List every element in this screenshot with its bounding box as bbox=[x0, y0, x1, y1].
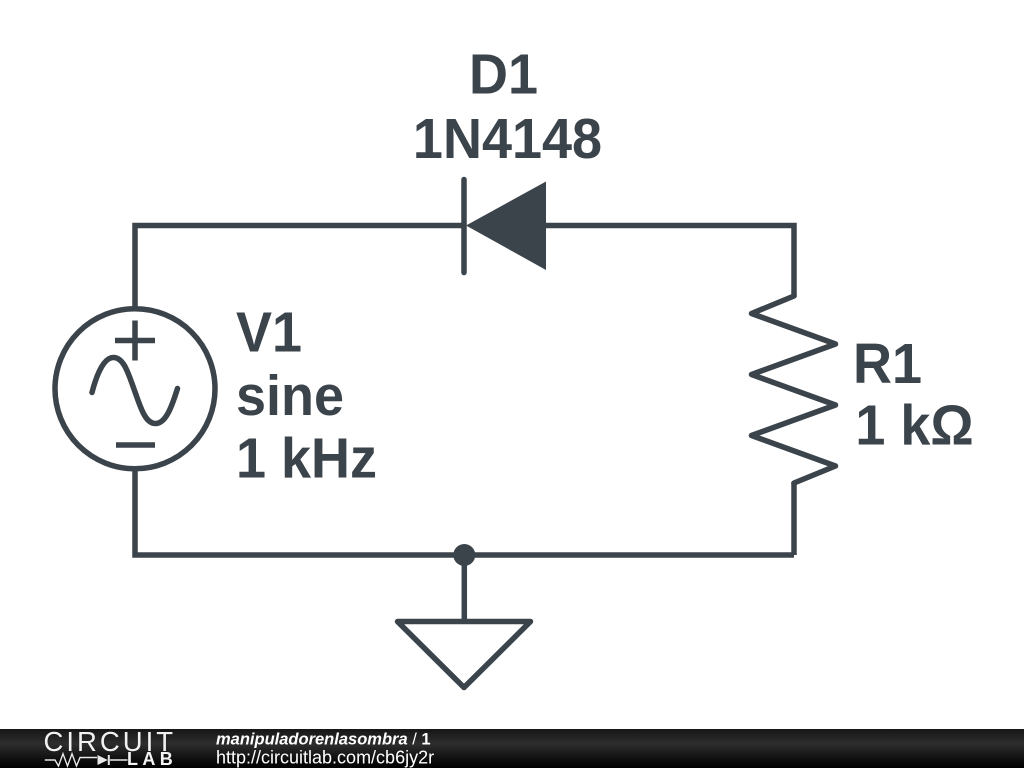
footer bar bbox=[0, 729, 1024, 768]
svg-text:1N4148: 1N4148 bbox=[413, 107, 602, 171]
wire right-bottom: R1 bottom to bottom rail bbox=[791, 482, 797, 555]
svg-text:R1: R1 bbox=[853, 332, 922, 396]
D1 triangle bbox=[466, 182, 546, 271]
wire top-left: V1 top to diode cathode bbox=[135, 226, 464, 307]
CircuitLab logo: resistor-diode squiggle bbox=[45, 754, 128, 766]
D1 cathode bar bbox=[461, 180, 467, 273]
svg-text:1 kΩ: 1 kΩ bbox=[855, 393, 973, 457]
svg-text:manipuladorenlasombra / 1: manipuladorenlasombra / 1 bbox=[216, 731, 431, 749]
resistor R1 bbox=[752, 296, 836, 483]
V1 circle bbox=[55, 309, 215, 469]
voltage source V1 bbox=[55, 309, 215, 469]
wire top-right: diode anode to R1 top bbox=[546, 226, 794, 298]
svg-text:sine: sine bbox=[236, 364, 344, 428]
svg-text:D1: D1 bbox=[469, 42, 538, 106]
ground symbol bbox=[398, 622, 531, 688]
svg-text:LAB: LAB bbox=[127, 749, 177, 768]
svg-text:http://circuitlab.com/cb6jy2r: http://circuitlab.com/cb6jy2r bbox=[216, 748, 434, 768]
V1 sine wave bbox=[92, 358, 178, 424]
svg-text:1 kHz: 1 kHz bbox=[236, 426, 377, 490]
junction node dot bbox=[453, 544, 475, 566]
svg-text:V1: V1 bbox=[236, 300, 302, 364]
ground stem wire bbox=[462, 555, 468, 621]
V1 minus sign bbox=[116, 442, 155, 448]
diode D1 bbox=[464, 180, 546, 273]
wire bottom rail bbox=[135, 471, 794, 555]
V1 plus sign bbox=[115, 321, 155, 361]
